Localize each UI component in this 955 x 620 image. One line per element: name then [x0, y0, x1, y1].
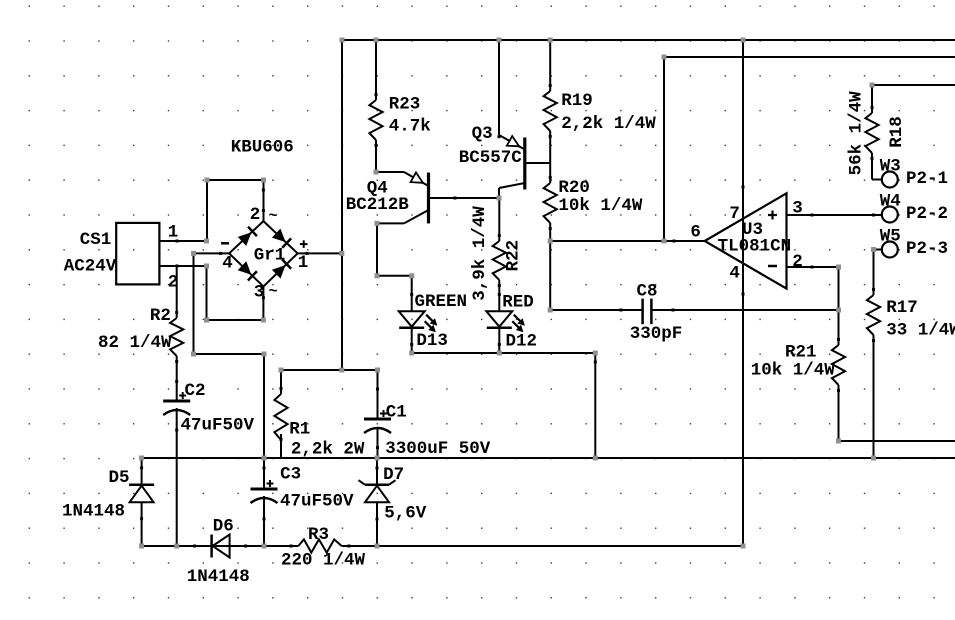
wire opamp pin2 out — [787, 266, 839, 268]
wire W5 stub — [874, 249, 882, 251]
bridge rectifier Gr1 diamond — [229, 221, 297, 286]
svg-text:5,6V: 5,6V — [384, 504, 427, 524]
diode D6 — [212, 535, 230, 558]
svg-text:R17: R17 — [886, 298, 918, 318]
wire R18 bottom lead — [871, 153, 873, 180]
label P2-2 — [906, 204, 948, 224]
svg-text:1: 1 — [168, 223, 179, 243]
label D5 value 1N4148 — [62, 502, 125, 522]
label W4 — [880, 192, 901, 212]
LED D13 (green) — [399, 311, 438, 332]
label R20 value 10k 1/4W — [558, 196, 643, 216]
resistor R20 — [544, 183, 557, 223]
terminal W5 circle — [882, 242, 898, 258]
svg-text:2: 2 — [168, 273, 179, 293]
label R19 value 2,2k 1/4W — [561, 114, 656, 134]
svg-text:R21: R21 — [785, 343, 817, 363]
label RED — [502, 293, 534, 313]
wire D13 cathode lead — [411, 328, 413, 354]
bridge diode bottom-left — [238, 261, 257, 280]
label R3 value 220 1/4W — [281, 551, 366, 571]
svg-text:D12: D12 — [506, 332, 538, 352]
wire D13 anode lead — [411, 276, 413, 311]
svg-text:56k 1/4W: 56k 1/4W — [847, 91, 867, 176]
terminal W4 circle — [882, 207, 898, 223]
wire R19 top lead — [549, 40, 551, 91]
diode D5 — [129, 485, 154, 503]
label D5 — [109, 468, 130, 488]
label Q3 — [472, 124, 493, 144]
wire bottom rail y=546 left — [142, 545, 299, 547]
resistor R1 — [274, 394, 287, 440]
wire bridge bottom link y=320 — [207, 319, 264, 321]
wire C8 right — [651, 309, 838, 311]
wire R22 top lead — [498, 198, 500, 241]
svg-text:10k 1/4W: 10k 1/4W — [751, 361, 836, 381]
wire vertical x=664 (pin6 net) — [663, 57, 665, 241]
wire Q3 emitter vertical x=499 — [498, 40, 500, 135]
svg-text:220 1/4W: 220 1/4W — [281, 551, 366, 571]
svg-text:6: 6 — [690, 223, 701, 243]
wire horizontal y=354 — [194, 353, 265, 355]
wire R20 bottom lead — [549, 223, 551, 241]
svg-text:R22: R22 — [503, 240, 523, 272]
label R21 — [785, 343, 817, 363]
label D13 — [416, 331, 448, 351]
wire C8 left — [550, 309, 642, 311]
wire R17 bottom lead — [873, 335, 875, 458]
svg-text:2,2k 2W: 2,2k 2W — [291, 440, 365, 460]
resistor R23 — [369, 100, 382, 140]
label R21 value 10k 1/4W — [751, 361, 836, 381]
label D7 value 5,6V — [384, 504, 427, 524]
svg-text:KBU606: KBU606 — [231, 138, 294, 158]
svg-text:7: 7 — [729, 204, 740, 224]
resistor R18 — [865, 113, 878, 153]
label R20 — [558, 178, 590, 198]
resistor R17 — [867, 295, 880, 335]
svg-text:P2-3: P2-3 — [906, 239, 948, 259]
wire Q4 collector horizontal — [377, 222, 404, 224]
svg-text:4: 4 — [222, 254, 233, 274]
svg-text:3300uF 50V: 3300uF 50V — [385, 439, 491, 459]
svg-text:BC212B: BC212B — [346, 195, 410, 215]
wire C1 bottom lead — [377, 427, 379, 458]
wire D5 bottom lead — [141, 502, 143, 546]
svg-text:3: 3 — [792, 199, 803, 219]
wire D7 bottom lead — [376, 502, 378, 546]
svg-text:AC24V: AC24V — [64, 257, 117, 277]
wire R21 out to right edge y=441 — [839, 440, 955, 442]
wire vertical x=207 (CS1 pin1 up) — [206, 180, 208, 241]
bridge diode bottom-right — [272, 259, 291, 278]
label U3 pin 7 — [729, 204, 740, 224]
label Q4 — [367, 179, 388, 199]
LED D12 (red) — [486, 311, 525, 332]
wire vertical x=206.5 pin2 down — [206, 266, 208, 320]
label R23 — [389, 95, 421, 115]
label U3 pin 3 — [792, 199, 803, 219]
svg-text:RED: RED — [502, 293, 534, 313]
label U3 pin 6 — [690, 223, 701, 243]
wire KBU top link horizontal y=180 — [207, 179, 264, 181]
wire bridge plus to rail — [298, 252, 343, 254]
label P2-1 — [906, 169, 948, 189]
label R22 value 3,9k 1/4W (rotated) — [470, 206, 490, 301]
capacitor C8 — [643, 299, 652, 325]
wire 0V rail y=458 — [142, 457, 955, 459]
label R2 — [150, 306, 171, 326]
wire D12 cathode lead — [498, 328, 500, 354]
svg-text:3,9k 1/4W: 3,9k 1/4W — [470, 206, 490, 301]
svg-text:Gr1: Gr1 — [254, 246, 286, 266]
label R23 value 4.7k — [389, 117, 431, 137]
label R18 value 56k 1/4W (rotated) — [847, 91, 867, 176]
label Q3 type BC557C — [459, 148, 523, 168]
svg-text:4.7k: 4.7k — [389, 117, 431, 137]
label bridge pin 3 — [254, 283, 265, 303]
svg-text:GREEN: GREEN — [415, 292, 468, 312]
wire R22 bottom to D12 — [498, 280, 500, 311]
wire R1 top lead — [280, 370, 282, 394]
label C2 — [185, 381, 206, 401]
label AC24V — [64, 257, 117, 277]
bridge plus sign — [300, 240, 308, 248]
wire R18 top lead — [871, 85, 873, 113]
wire horizontal y=370 R1/C1 top — [281, 369, 378, 371]
svg-text:3: 3 — [254, 283, 265, 303]
label D12 — [506, 332, 538, 352]
wire vertical x=193.5 — [193, 253, 195, 354]
svg-text:82 1/4W: 82 1/4W — [98, 333, 172, 353]
wire bridge minus left — [194, 252, 230, 254]
svg-text:47uF50V: 47uF50V — [280, 492, 354, 512]
wire Q4 collector to D13 — [377, 275, 412, 277]
resistor R2 — [170, 318, 183, 356]
label KBU606 — [231, 138, 294, 158]
svg-text:1: 1 — [298, 253, 309, 273]
resistor R3 — [298, 539, 341, 552]
wire C3 bottom lead — [263, 496, 265, 546]
bridge ac tilde top — [269, 208, 278, 225]
svg-text:1N4148: 1N4148 — [187, 567, 250, 587]
label Gr1 — [254, 246, 286, 266]
wire vertical x=838.5 pin2/C8/R21 — [838, 267, 840, 345]
label C8 value 330pF — [630, 324, 683, 344]
label D6 value 1N4148 — [187, 567, 250, 587]
svg-text:10k 1/4W: 10k 1/4W — [558, 196, 643, 216]
wire LED bottoms horizontal y=353 — [412, 352, 596, 354]
wire Q3 collector to Q4 base junction — [498, 188, 500, 198]
label U3 pin 2 — [792, 252, 803, 272]
label R3 — [308, 525, 329, 545]
svg-text:D6: D6 — [213, 517, 234, 537]
label U3 pin 4 — [729, 264, 740, 284]
wire C2 bottom to bottom rail — [176, 408, 178, 546]
wire CS1 pin 2 — [160, 265, 207, 267]
label R1 value 2,2k 2W — [291, 440, 365, 460]
label Q4 type BC212B — [346, 195, 410, 215]
op-amp minus sign — [768, 265, 777, 268]
wire R19-R20 link — [549, 131, 551, 183]
wire C1 top lead — [377, 370, 379, 419]
wire opamp pin3 to W4 — [787, 214, 882, 216]
wire vertical x=595 to 0V rail — [594, 353, 596, 458]
svg-text:C1: C1 — [386, 403, 407, 423]
svg-text:1N4148: 1N4148 — [62, 502, 125, 522]
component pin end dots — [140, 84, 875, 548]
svg-text:R2: R2 — [150, 306, 171, 326]
svg-text:D5: D5 — [109, 468, 130, 488]
svg-text:W5: W5 — [880, 227, 901, 247]
wire R1 bottom lead — [280, 434, 282, 458]
label W5 — [880, 227, 901, 247]
label U3 — [742, 220, 763, 240]
wire horizontal y=85 to right edge (R18 top) — [872, 84, 955, 86]
label R17 value 33 1/4W — [886, 321, 955, 341]
svg-text:47uF50V: 47uF50V — [181, 416, 255, 436]
wire CS1 pin 1 — [160, 240, 207, 242]
label C1 — [386, 403, 407, 423]
wire horizontal y=57 to right edge — [663, 56, 955, 58]
transistor Q3 BC557C — [499, 135, 525, 190]
wire W5 down to R17 — [873, 250, 875, 296]
svg-text:~: ~ — [269, 208, 278, 225]
label bridge pin 4 — [222, 254, 233, 274]
label CS1 pin 1 — [168, 223, 179, 243]
wire junction markers — [139, 38, 876, 549]
svg-text:R20: R20 — [558, 178, 590, 198]
label W3 — [880, 157, 901, 177]
wire vertical x=550 to C8 — [549, 241, 551, 310]
terminal W3 circle — [882, 172, 898, 188]
svg-text:BC557C: BC557C — [459, 148, 523, 168]
wire Q3 base lead — [525, 162, 550, 164]
capacitor C1 — [364, 410, 391, 433]
wire R2-C2 link — [176, 356, 178, 401]
label bridge pin 1 — [298, 253, 309, 273]
wire C3 top lead — [263, 458, 265, 489]
wire Q4 base lead — [430, 197, 500, 199]
svg-text:P2-1: P2-1 — [906, 169, 948, 189]
label R18 (rotated) — [887, 116, 907, 148]
svg-text:330pF: 330pF — [630, 324, 683, 344]
svg-text:C8: C8 — [637, 282, 658, 302]
wire R23 top lead — [375, 40, 377, 100]
label C1 value 3300uF 50V — [385, 439, 491, 459]
svg-text:CS1: CS1 — [80, 230, 112, 250]
svg-text:D13: D13 — [416, 331, 448, 351]
label bridge pin 2 — [250, 205, 261, 225]
wire Q4 emitter horizontal — [376, 171, 404, 173]
resistor R22 — [493, 241, 506, 280]
svg-text:Q3: Q3 — [472, 124, 493, 144]
svg-text:R3: R3 — [308, 525, 329, 545]
svg-text:R19: R19 — [561, 91, 593, 111]
label C3 — [280, 465, 301, 485]
wire D5 top lead — [141, 458, 143, 485]
op-amp U3 triangle — [705, 193, 787, 288]
wire R18 to W3 — [872, 179, 882, 181]
svg-text:W3: W3 — [880, 157, 901, 177]
wire R2 top lead from pin2 — [176, 266, 178, 318]
wire R23 bottom lead — [375, 140, 377, 172]
svg-text:2: 2 — [250, 205, 261, 225]
svg-text:C3: C3 — [280, 465, 301, 485]
zener diode D7 — [359, 480, 396, 502]
wire Q4 collector down x=377 — [376, 223, 378, 275]
svg-text:~: ~ — [269, 284, 278, 301]
svg-text:P2-2: P2-2 — [906, 204, 948, 224]
wire bridge top lead — [263, 180, 265, 222]
resistor R21 — [832, 345, 845, 385]
resistor R19 — [544, 91, 557, 131]
label U3 type TL081CN — [718, 237, 792, 257]
svg-text:2,2k 1/4W: 2,2k 1/4W — [561, 114, 656, 134]
connector CS1 box — [116, 223, 159, 285]
wire top +V rail horizontal — [341, 39, 955, 41]
label P2-3 — [906, 239, 948, 259]
wire R21 bottom lead — [838, 385, 840, 441]
label R2 value 82 1/4W — [98, 333, 172, 353]
label C2 value — [181, 416, 255, 436]
label C3 value — [280, 492, 354, 512]
bridge ac tilde bottom — [269, 284, 278, 301]
label CS1 pin 2 — [168, 273, 179, 293]
capacitor C3 — [251, 480, 278, 503]
capacitor C2 — [163, 392, 190, 415]
label C8 — [637, 282, 658, 302]
label R1 — [289, 420, 310, 440]
bridge minus sign — [221, 242, 229, 245]
svg-text:C2: C2 — [185, 381, 206, 401]
label D7 — [383, 465, 404, 485]
label R22 (rotated) — [503, 240, 523, 272]
op-amp plus sign — [768, 211, 777, 220]
svg-text:D7: D7 — [383, 465, 404, 485]
transistor Q4 BC212B — [404, 172, 429, 223]
svg-text:2: 2 — [792, 252, 803, 272]
wire bridge bottom lead — [262, 287, 264, 321]
label CS1 — [80, 230, 112, 250]
wire vertical x=264 to 0V rail — [263, 354, 265, 458]
wire power rail vertical x=743 — [742, 40, 744, 546]
svg-text:R18: R18 — [887, 116, 907, 148]
label R19 — [561, 91, 593, 111]
svg-text:R1: R1 — [289, 420, 310, 440]
svg-text:R23: R23 — [389, 95, 421, 115]
wire bottom rail y=546 right — [342, 545, 743, 547]
bridge diode top-left — [238, 227, 257, 246]
svg-text:W4: W4 — [880, 192, 901, 212]
label R17 — [886, 298, 918, 318]
svg-text:TL081CN: TL081CN — [718, 237, 792, 257]
label GREEN — [415, 292, 468, 312]
label D6 — [213, 517, 234, 537]
bridge diode top-right — [272, 229, 291, 248]
wire +V rail vertical x=342 — [341, 40, 343, 370]
wire D7 top lead — [376, 458, 378, 485]
svg-text:4: 4 — [729, 264, 740, 284]
svg-text:33 1/4W: 33 1/4W — [886, 321, 955, 341]
wire pin6 horizontal y=241 — [550, 240, 705, 242]
